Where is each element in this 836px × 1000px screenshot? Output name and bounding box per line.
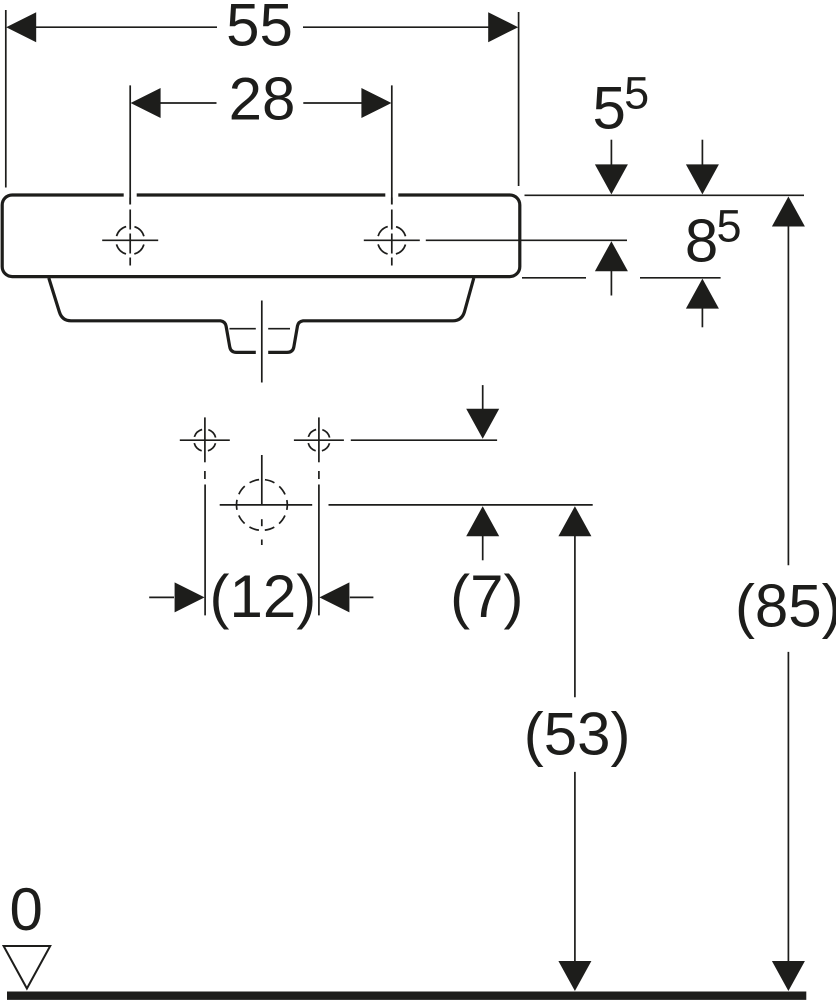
svg-text:28: 28 (229, 66, 296, 133)
svg-text:8: 8 (685, 207, 718, 274)
svg-text:0: 0 (10, 876, 43, 943)
svg-text:5: 5 (624, 68, 649, 119)
svg-text:(7): (7) (450, 563, 523, 630)
svg-text:55: 55 (226, 0, 293, 58)
svg-text:5: 5 (593, 74, 626, 141)
svg-text:(53): (53) (524, 701, 631, 768)
svg-text:(12): (12) (210, 563, 317, 630)
svg-text:(85): (85) (735, 573, 836, 640)
svg-text:5: 5 (716, 201, 741, 252)
